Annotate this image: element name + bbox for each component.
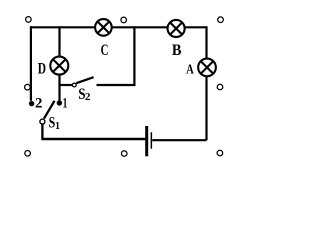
wire: top bus from top-left corner to top-right corner xyxy=(30,26,207,28)
terminal circle top-middle xyxy=(121,17,127,23)
switch S1 contact 2 (filled dot) xyxy=(29,101,34,106)
wire: bottom bus right segment from battery positive plate to right vertical xyxy=(152,139,206,141)
terminal circle top-left xyxy=(26,17,32,23)
lamp D (circle with X) on lamp D branch xyxy=(50,57,68,75)
battery: long thick plate (left) xyxy=(145,126,148,156)
lamp A (circle with X) on right vertical xyxy=(198,59,216,77)
wire: bottom bus left segment from switch S1 pivot drop to battery negative plate xyxy=(41,123,146,140)
switch S2 pivot (open circle) xyxy=(72,83,76,87)
label A xyxy=(186,62,194,77)
label B xyxy=(172,42,182,59)
svg-text:B: B xyxy=(172,42,182,59)
svg-text:C: C xyxy=(101,42,109,59)
switch S1 pivot (open circle) xyxy=(40,119,45,124)
switch S1 blade (open, pointing to contact 1) xyxy=(44,101,55,119)
svg-text:1: 1 xyxy=(55,120,60,132)
svg-text:2: 2 xyxy=(35,96,42,112)
svg-text:D: D xyxy=(38,60,46,77)
terminal circle right-middle xyxy=(217,84,223,90)
wire: lamp D branch vertical from top bus down to contact 1 xyxy=(58,26,60,100)
wire: left vertical from top-left corner down to contact 2 xyxy=(30,26,32,101)
wire: middle vertical from top bus down then left to switch S2 fixed contact xyxy=(97,26,135,85)
pin number 1 xyxy=(63,96,68,112)
wire: stub from lamp D branch to switch S2 pivot xyxy=(60,84,72,86)
switch S1 contact 1 (filled dot) xyxy=(57,100,62,105)
terminal circle left-middle (on left vertical wire) xyxy=(25,84,31,90)
terminal circle bottom-middle xyxy=(121,151,127,157)
lamp B (circle with X) on top bus xyxy=(168,20,185,37)
lamp C (circle with X) on top bus xyxy=(95,19,112,36)
svg-text:1: 1 xyxy=(63,96,68,112)
switch S2 blade (open) xyxy=(76,77,93,83)
svg-text:A: A xyxy=(186,62,194,77)
svg-text:2: 2 xyxy=(85,91,91,103)
label D xyxy=(38,60,46,77)
pin number 2 xyxy=(35,96,42,112)
terminal circle bottom-right xyxy=(217,150,223,156)
terminal circle bottom-left xyxy=(25,151,31,157)
label C xyxy=(101,42,109,59)
label S1 xyxy=(49,115,60,132)
battery: short thin plate (right) xyxy=(151,132,153,148)
wire: right vertical from top bus through lamp A down to bottom bus xyxy=(205,26,207,140)
label S2 xyxy=(78,86,91,103)
terminal circle top-right xyxy=(218,17,224,23)
